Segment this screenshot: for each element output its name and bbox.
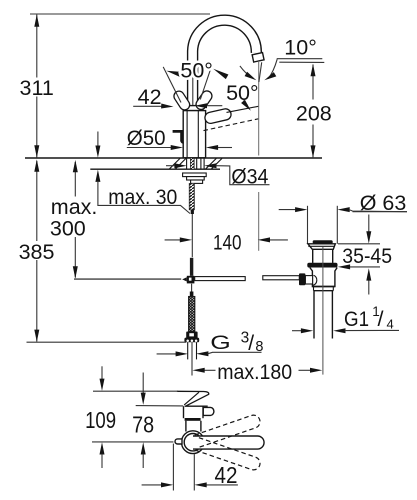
svg-text:max.180: max.180 xyxy=(217,360,292,384)
flexible supply hose (braided) xyxy=(189,297,195,332)
waste lower body xyxy=(310,268,337,287)
bottom view body walls xyxy=(183,406,185,418)
dim 42 bottom left arrow xyxy=(142,484,162,486)
208 top reference line xyxy=(279,61,324,63)
bottom view lever blade xyxy=(177,391,209,406)
svg-text:385: 385 xyxy=(19,240,55,264)
bottom view pivot outer circle xyxy=(182,431,205,454)
svg-text:4: 4 xyxy=(387,317,394,332)
dim o34 left arrow xyxy=(166,165,175,167)
dim 311 line xyxy=(36,15,38,78)
bottom view pivot extension line xyxy=(193,454,195,490)
waste centreline xyxy=(322,247,324,375)
dim max30 lower arrow and bracket xyxy=(95,170,100,182)
svg-text:/: / xyxy=(248,332,254,355)
dim 10 left arc arrow xyxy=(240,66,253,78)
svg-text:Ø 63: Ø 63 xyxy=(360,191,407,215)
dim o63 left arrow xyxy=(279,209,296,211)
faucet body cap xyxy=(186,106,203,111)
dim 109 bottom arrow xyxy=(100,442,105,454)
dim 78 top arrow xyxy=(142,373,144,394)
svg-text:max.: max. xyxy=(51,195,98,219)
bottom view 109 reference line xyxy=(93,390,178,392)
385 bottom reference line xyxy=(27,341,187,343)
dim G1-1/4 left arrow xyxy=(292,330,302,332)
waste tailpipe walls xyxy=(313,291,315,339)
dim 385 line xyxy=(36,161,38,241)
pop-up rod thick section xyxy=(190,258,193,276)
dim 35-45 top arrow xyxy=(368,215,370,233)
hose end nut xyxy=(186,332,197,339)
top reference line (overall height datum) xyxy=(30,13,210,15)
bottom view body top line xyxy=(185,405,208,407)
bottom view supply extension line xyxy=(172,444,174,491)
bottom view supply nub xyxy=(175,439,182,444)
dim o50 left arrow xyxy=(127,147,172,149)
lever open position bottom dashed line xyxy=(204,119,259,131)
svg-text:10°: 10° xyxy=(284,35,317,59)
dim 50 top left arc arrow xyxy=(166,71,181,77)
horizontal pop-up rod left segment xyxy=(74,278,181,280)
waste ball joint arc xyxy=(313,275,317,285)
countertop deck bottom line xyxy=(90,168,220,170)
dim 50 right lower arrow xyxy=(244,101,248,106)
mounting nut stack xyxy=(183,173,207,177)
dim 140 left arrow xyxy=(165,239,181,241)
lever axis extension line left (50 deg) xyxy=(163,67,181,103)
waste rod sleeve xyxy=(305,276,312,284)
lever neutral axis vertical line xyxy=(192,63,194,106)
bottom view spout (solid position) xyxy=(193,436,264,449)
waste dia-63 extension line right xyxy=(336,206,338,244)
dim o34 right arrow and bracket xyxy=(204,163,216,168)
dim max180 right arrow xyxy=(299,369,311,371)
deck hatch right xyxy=(206,158,217,168)
faucet body xyxy=(183,111,205,158)
lever handle open position knob xyxy=(211,114,226,117)
svg-text:8: 8 xyxy=(255,339,263,355)
G3/8 connector walls xyxy=(187,342,189,359)
svg-text:78: 78 xyxy=(132,412,154,438)
faucet body inner lines xyxy=(186,111,188,158)
dim 10 label underline xyxy=(277,58,323,60)
dim max180 left arrow xyxy=(204,369,216,371)
countertop deck top line xyxy=(25,157,322,159)
waste rod entry block xyxy=(299,273,305,285)
spout tip 10deg axis line xyxy=(259,62,262,82)
bottom view deck reference line xyxy=(92,441,173,443)
dim 35-45 flange-top extension line xyxy=(338,243,380,245)
waste dia-63 extension line left xyxy=(307,206,309,244)
svg-text:50°: 50° xyxy=(226,81,259,105)
svg-text:300: 300 xyxy=(50,217,86,241)
stud dark end xyxy=(191,210,194,214)
dim o63 right arrow and label underline xyxy=(337,207,349,212)
svg-text:Ø34: Ø34 xyxy=(231,165,268,189)
dim 50 top right arc arrow xyxy=(213,69,228,79)
svg-text:/: / xyxy=(378,307,384,331)
dim 42 top right arrow xyxy=(206,105,222,107)
svg-text:50°: 50° xyxy=(180,59,213,83)
svg-text:208: 208 xyxy=(296,101,332,125)
dim 42 top left arrow xyxy=(133,105,162,107)
bottom view 78 reference line xyxy=(136,405,184,407)
bottom view pivot inner circle xyxy=(184,434,201,451)
deck hatch left xyxy=(170,158,181,168)
svg-text:35-45: 35-45 xyxy=(342,244,392,268)
lever handle up-left position xyxy=(179,96,185,105)
bottom view body dark band xyxy=(185,418,201,421)
pop-up rod joint left wings xyxy=(182,277,187,281)
waste plug dark bar xyxy=(313,240,333,244)
svg-text:42: 42 xyxy=(215,462,238,488)
bottom view spout swung down (dashed) xyxy=(195,438,262,472)
G3/8 connector centreline xyxy=(191,342,193,375)
dim 78 bottom arrow xyxy=(141,442,146,454)
dim 42 bottom right arrow xyxy=(206,484,238,486)
rod link below joint xyxy=(191,284,193,292)
svg-text:Ø50: Ø50 xyxy=(127,126,166,150)
svg-text:109: 109 xyxy=(85,407,116,433)
waste locking ring xyxy=(307,263,337,268)
lever axis extension line right (50 deg) xyxy=(200,64,212,100)
pop-up rod joint block xyxy=(187,276,195,284)
side hook detail on body left wall xyxy=(173,131,184,142)
dim 109 top arrow xyxy=(101,366,103,379)
svg-text:42: 42 xyxy=(138,85,162,109)
dim 140 right arrow xyxy=(269,239,288,241)
svg-text:311: 311 xyxy=(20,76,54,100)
dim max300 line xyxy=(74,162,76,197)
waste flange xyxy=(308,244,335,250)
bottom view neck walls xyxy=(185,421,187,432)
spout tube (goose-neck arc) xyxy=(193,20,257,113)
svg-text:G1: G1 xyxy=(344,307,369,331)
svg-text:G: G xyxy=(210,332,231,354)
lever open position top line xyxy=(227,106,259,112)
pop-up rod upper thin line / faucet centreline xyxy=(191,214,193,257)
dim o50 right arrow xyxy=(217,147,232,149)
dim 35-45 ring-bottom extension line xyxy=(349,266,380,268)
bottom view pivot stub xyxy=(203,407,214,415)
svg-text:140: 140 xyxy=(213,230,242,254)
mounting shank walls in deck xyxy=(186,158,188,169)
threaded mounting stud xyxy=(189,183,194,209)
spout aerator tip (10 deg tilted) xyxy=(252,53,264,62)
spout tip centreline xyxy=(258,62,260,156)
dim max30 upper arrow xyxy=(97,132,99,148)
dim 208 line xyxy=(312,65,314,100)
waste upper body walls xyxy=(312,249,314,263)
rod link square xyxy=(190,292,194,297)
dim G3/8 left arrow xyxy=(157,353,177,355)
bottom view spout swung up (dashed) xyxy=(195,413,262,447)
svg-text:max. 30: max. 30 xyxy=(108,185,177,209)
dim G3/8 right arrow and label underline xyxy=(196,351,208,356)
dim G1-1/4 right arrow and label underline xyxy=(333,328,345,333)
horizontal pop-up rod right segment xyxy=(263,276,300,280)
dim 10 right arc arrow xyxy=(268,59,277,78)
waste bottom step xyxy=(313,287,315,291)
horizontal pop-up rod middle segment xyxy=(195,277,246,281)
threaded section in deck xyxy=(190,158,194,169)
dim 35-45 bottom arrow xyxy=(368,280,370,295)
lever handle up-right position xyxy=(201,96,207,104)
